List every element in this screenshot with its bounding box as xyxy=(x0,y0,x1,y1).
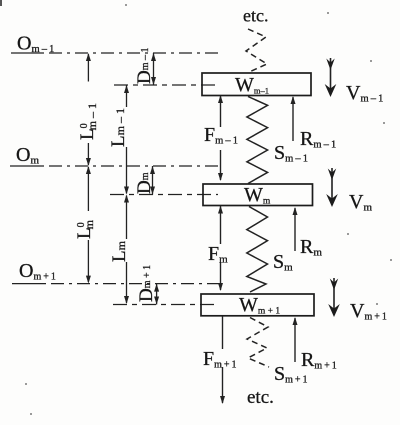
reference line at W m mid xyxy=(110,194,218,196)
svg-text:Fm: Fm xyxy=(208,243,228,266)
force arrow F m xyxy=(218,206,223,292)
svg-text:Lm – 1: Lm – 1 xyxy=(108,108,129,147)
svg-text:Rm + 1: Rm + 1 xyxy=(301,349,337,372)
dimension L0 m xyxy=(74,166,96,284)
svg-text:L0m – 1: L0m – 1 xyxy=(77,103,99,140)
velocity arrow V m xyxy=(326,168,338,207)
mass W m-1 box xyxy=(202,73,311,96)
svg-text:etc.: etc. xyxy=(243,6,268,26)
dimension L0 m-1 xyxy=(77,53,99,166)
reference line O m xyxy=(10,165,220,167)
reference line O m-1 xyxy=(11,52,218,54)
svg-text:Om – 1: Om – 1 xyxy=(17,33,54,56)
reaction arrow R m+1 xyxy=(293,317,298,362)
svg-text:Rm: Rm xyxy=(300,236,322,259)
svg-text:Rm – 1: Rm – 1 xyxy=(300,128,336,151)
svg-text:Vm – 1: Vm – 1 xyxy=(346,82,383,105)
svg-text:etc.: etc. xyxy=(247,387,274,408)
scan corner mark xyxy=(0,0,2,6)
svg-text:Vm + 1: Vm + 1 xyxy=(350,300,387,323)
reference line at W m-1 mid xyxy=(114,84,218,86)
force arrow F m-1 xyxy=(218,95,223,181)
dimension D m-1 xyxy=(134,47,156,85)
dashed spring S m+1 below W m+1 xyxy=(247,318,269,368)
reference line O m+1 xyxy=(12,283,223,285)
svg-text:L0m: L0m xyxy=(74,219,96,239)
svg-text:Om + 1: Om + 1 xyxy=(19,260,56,283)
dimension D m xyxy=(134,166,155,195)
reaction arrow R m-1 xyxy=(291,96,296,141)
dimension D m+1 xyxy=(136,265,159,305)
velocity arrow V m+1 xyxy=(328,278,340,317)
reference line at W m+1 mid xyxy=(113,304,218,306)
spring S m-1 xyxy=(247,97,268,184)
force arrow F m+1 xyxy=(220,316,225,404)
svg-text:Wm + 1: Wm + 1 xyxy=(239,294,280,317)
dimension L m-1 xyxy=(108,85,129,195)
mass W m+1 box xyxy=(201,294,314,316)
svg-text:Fm + 1: Fm + 1 xyxy=(203,348,237,371)
svg-text:Wm: Wm xyxy=(244,184,271,207)
svg-text:Lm: Lm xyxy=(109,240,130,262)
svg-text:Wm–1: Wm–1 xyxy=(235,74,269,96)
velocity arrow V m-1 xyxy=(325,58,337,97)
svg-text:Fm – 1: Fm – 1 xyxy=(204,124,238,147)
dashed spring above W m-1 xyxy=(246,29,267,73)
svg-text:Vm: Vm xyxy=(349,191,372,214)
spring S m xyxy=(247,207,268,293)
reaction arrow R m xyxy=(293,207,298,251)
svg-text:Om: Om xyxy=(16,144,39,167)
mass W m box xyxy=(203,184,313,206)
svg-text:Sm: Sm xyxy=(273,251,293,274)
dimension L m xyxy=(109,195,130,305)
